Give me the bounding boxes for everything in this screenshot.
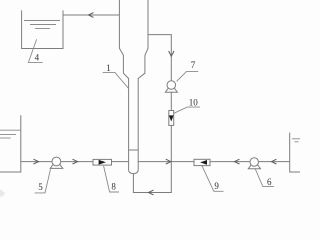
pump 7 xyxy=(165,81,177,93)
tank bottom-left xyxy=(0,115,21,172)
arrow right after tank left xyxy=(34,159,39,164)
svg-text:6: 6 xyxy=(267,177,272,187)
tank 4 xyxy=(22,10,63,48)
pump 5 xyxy=(50,157,63,168)
wire: top pipe tank4 to column xyxy=(63,14,120,16)
svg-text:9: 9 xyxy=(214,181,219,191)
wire: column top right to pump7/valve10 down to bottom loop and into column bottom xyxy=(133,35,171,193)
svg-text:5: 5 xyxy=(38,182,43,192)
tank bottom-left liquid level xyxy=(0,130,20,138)
arrow left before junction right side xyxy=(235,159,240,164)
arrow down above pump 7 xyxy=(169,51,174,56)
arrow left on bottom loop xyxy=(149,190,154,195)
valve 8 xyxy=(93,159,112,165)
label 7 xyxy=(177,60,199,81)
svg-text:7: 7 xyxy=(191,60,196,70)
arrow right at junction xyxy=(166,159,171,164)
label 6 xyxy=(255,169,274,187)
watermark corner mark xyxy=(0,189,5,197)
tank 4 liquid level xyxy=(24,21,60,29)
svg-text:8: 8 xyxy=(111,181,116,191)
arrow right after pump 5 xyxy=(73,159,78,164)
tank bottom-right xyxy=(290,133,300,173)
label 9 xyxy=(202,166,224,192)
svg-text:1: 1 xyxy=(106,63,111,73)
label 10 xyxy=(174,98,200,114)
label 5 xyxy=(35,169,51,193)
arrow left after tank right xyxy=(272,159,277,164)
svg-text:10: 10 xyxy=(189,98,199,108)
label 8 xyxy=(104,166,119,192)
svg-text:4: 4 xyxy=(35,53,40,63)
pump 6 xyxy=(248,158,260,169)
valve 10 xyxy=(169,111,174,126)
column 1 white silhouette xyxy=(119,0,148,174)
column inner support line xyxy=(129,149,139,151)
wire: bottom main pipe xyxy=(21,161,290,163)
column 1 walls xyxy=(119,0,148,174)
label 4 xyxy=(28,39,42,62)
tank bottom-right liquid level xyxy=(292,139,300,142)
label 1 xyxy=(103,63,129,89)
arrow left on top pipe xyxy=(89,13,94,18)
valve 9 xyxy=(194,159,210,165)
